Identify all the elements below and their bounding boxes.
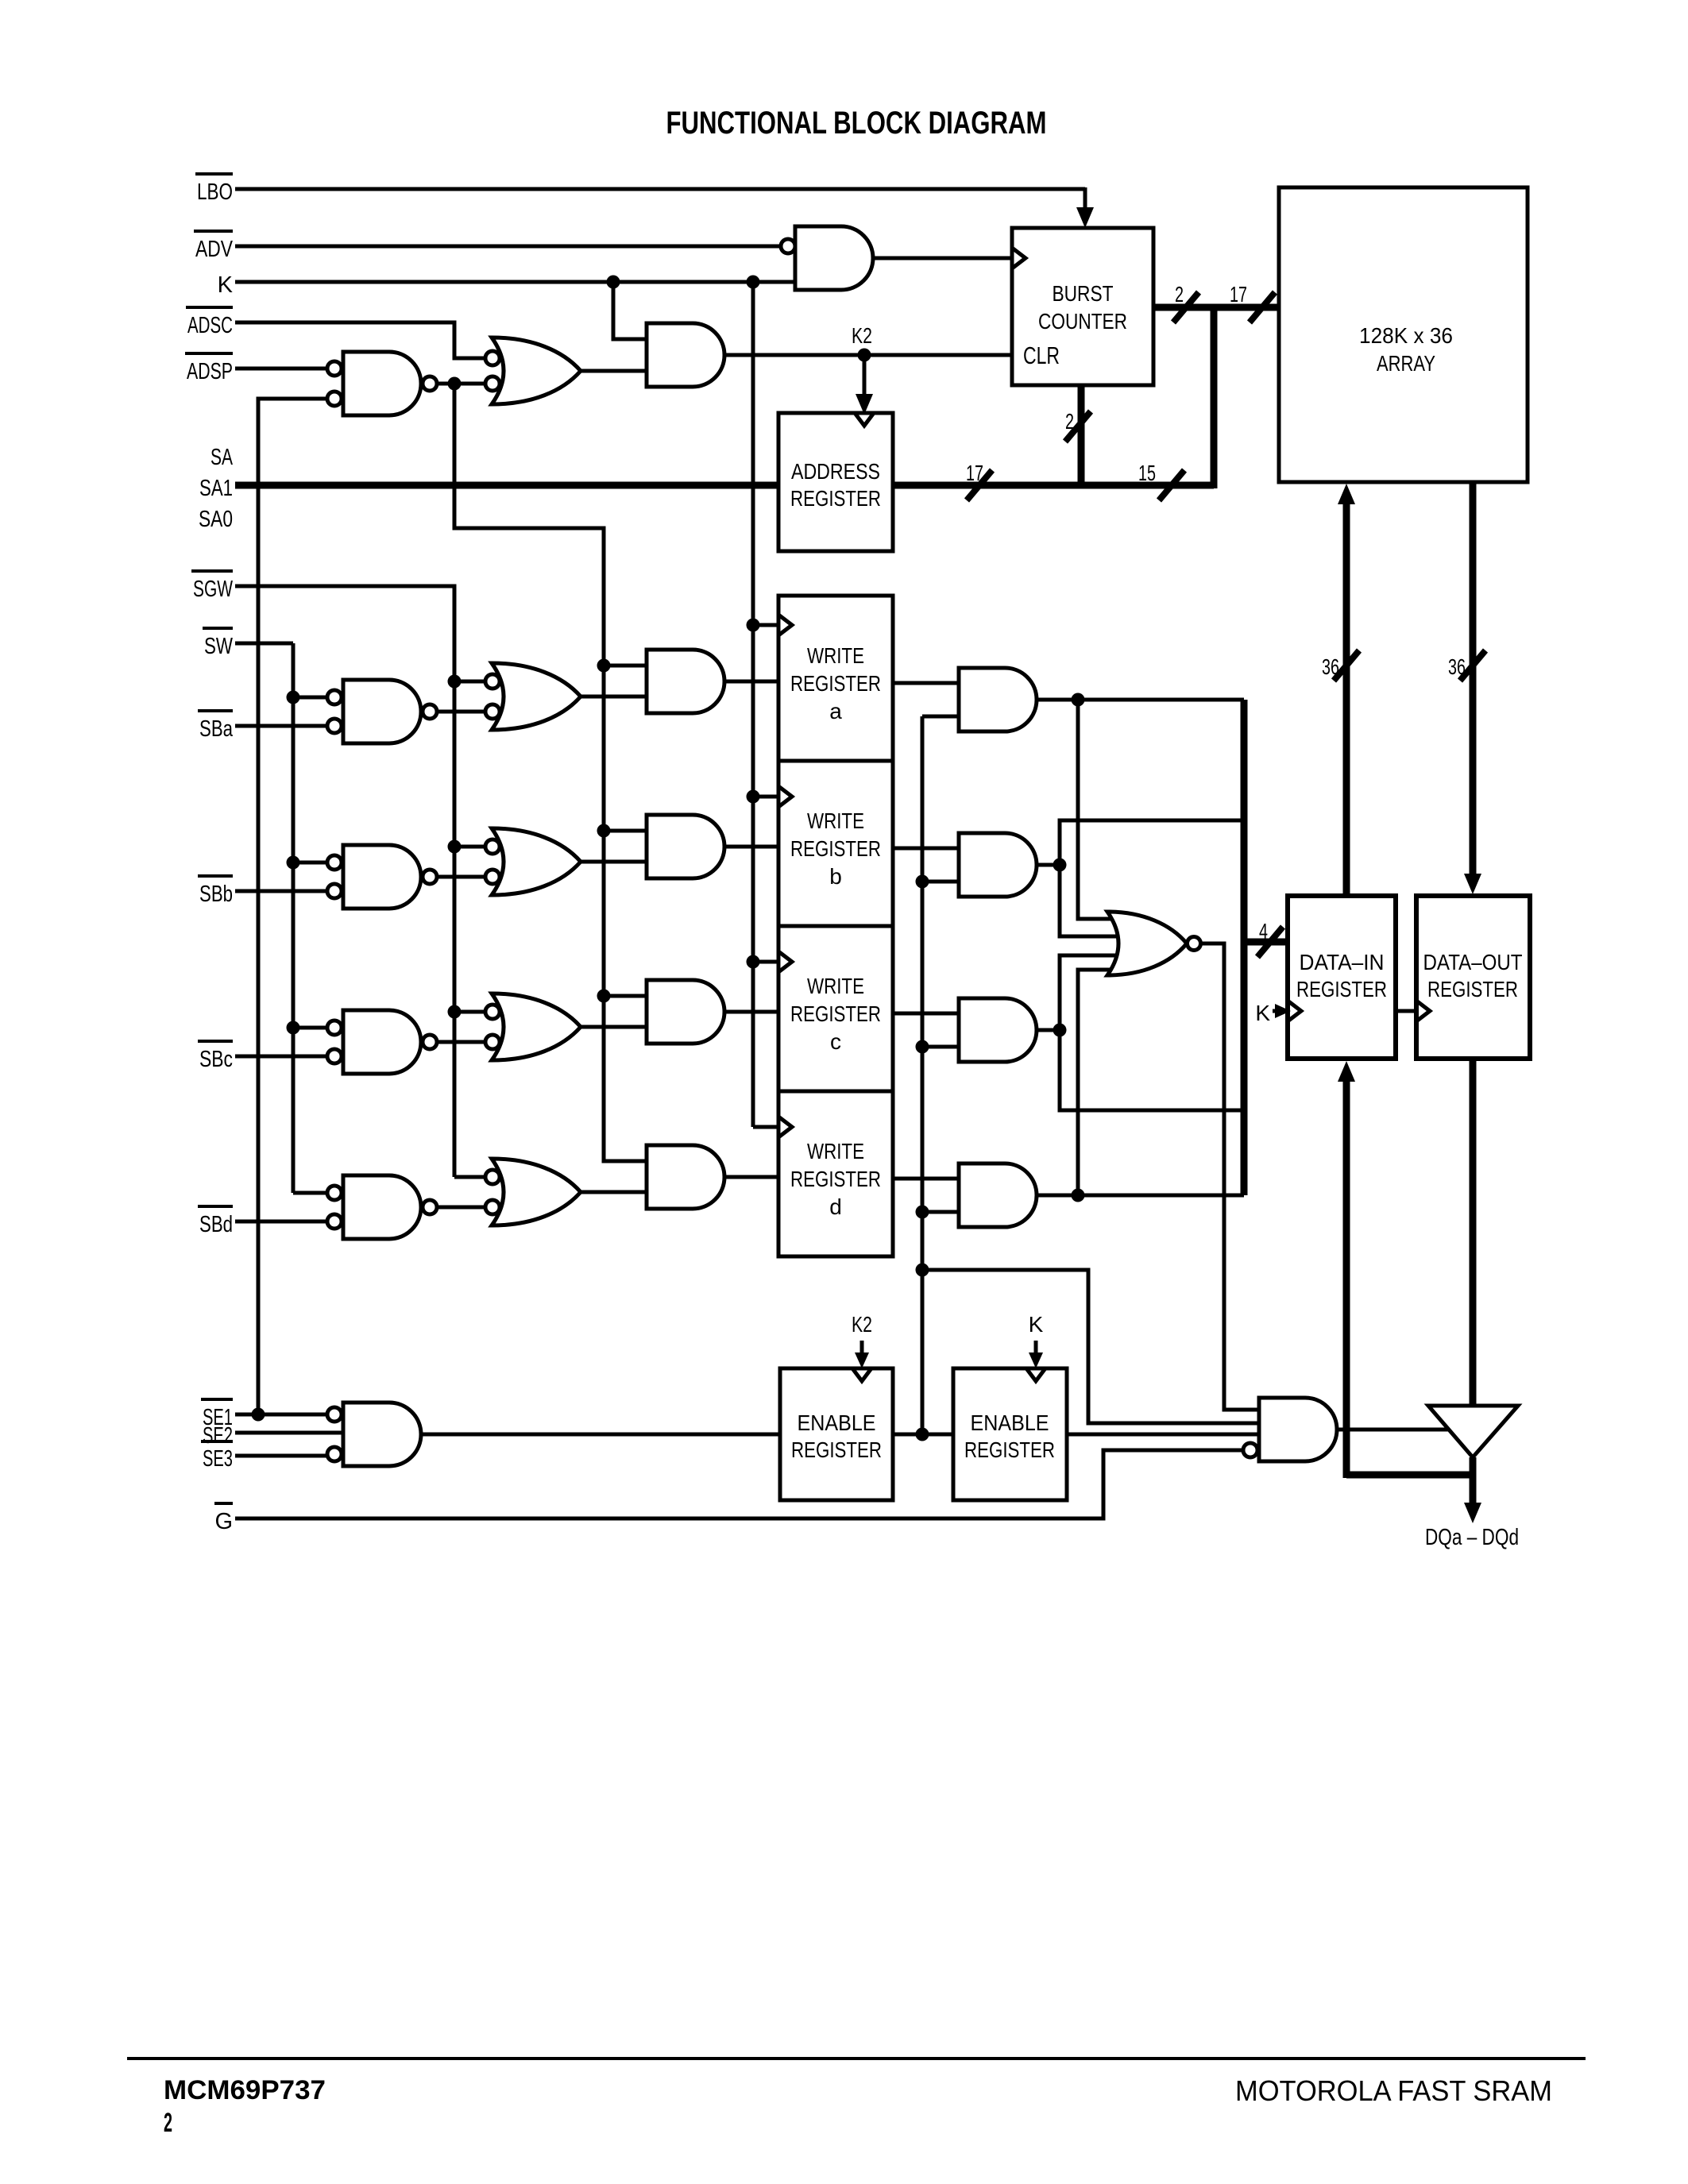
wire U8d to nor input 4 — [1078, 970, 1120, 1195]
svg-text:CLR: CLR — [1023, 341, 1060, 369]
label DQa-DQd — [1425, 1525, 1519, 1550]
svg-text:ENABLE: ENABLE — [798, 1410, 876, 1435]
svg-text:SA1: SA1 — [199, 476, 233, 501]
bus data-out to buffer — [1470, 1059, 1477, 1406]
and U7a write-enable gate — [647, 650, 724, 713]
bus 4 to data-in register — [1244, 939, 1288, 946]
svg-text:SBc: SBc — [199, 1047, 233, 1072]
svg-text:MOTOROLA FAST SRAM: MOTOROLA FAST SRAM — [1235, 2074, 1552, 2107]
wire enable tap row b — [922, 880, 959, 884]
or U6a write gate — [485, 663, 581, 730]
svg-text:REGISTER: REGISTER — [791, 1437, 882, 1462]
wire SBc input — [235, 1055, 327, 1059]
wire K2 arrow to enable register 1 — [852, 1341, 871, 1381]
node enable tap to output gate — [916, 1264, 929, 1277]
wire U7c output to write register — [724, 1010, 778, 1014]
wire U5d output — [436, 1206, 485, 1210]
wire U7b output to write register — [724, 845, 778, 849]
wire SBb input — [235, 889, 327, 893]
svg-text:SBb: SBb — [199, 882, 233, 907]
bus width 2 slash — [1173, 282, 1199, 322]
footer rule — [127, 2057, 1586, 2060]
wire K — [235, 280, 795, 284]
wire SBa input — [235, 724, 327, 728]
wire ADSP — [235, 367, 327, 371]
node SW tap row c — [287, 1021, 300, 1035]
svg-text:36: 36 — [1448, 654, 1466, 679]
and U7c write-enable gate — [647, 980, 724, 1044]
svg-text:ADSP: ADSP — [187, 359, 233, 384]
wire K to AND U3 input — [613, 282, 647, 339]
node U8d output junction — [1072, 1189, 1085, 1202]
svg-text:FUNCTIONAL BLOCK DIAGRAM: FUNCTIONAL BLOCK DIAGRAM — [666, 106, 1047, 141]
svg-text:G: G — [214, 1509, 233, 1534]
svg-text:d: d — [829, 1194, 842, 1219]
svg-text:ADDRESS: ADDRESS — [791, 459, 880, 484]
wire U1 output routed down to AND rows — [454, 384, 647, 1161]
wire SA line to U1 input — [258, 399, 327, 1414]
block BURST COUNTER — [1012, 228, 1153, 385]
wire SGW tap row b — [454, 845, 485, 849]
signal label ADSP — [185, 353, 233, 384]
wire U8d output to bus — [1037, 1194, 1244, 1198]
node routing tap row c — [597, 990, 611, 1003]
bus write-enable collect — [1241, 700, 1248, 1195]
wire U11 output to buffer — [1337, 1428, 1454, 1432]
wire U2 output — [581, 369, 647, 373]
and U8d output gate — [959, 1163, 1037, 1227]
wire SE1 to U10 — [235, 1413, 327, 1417]
wire SGW tap row d — [454, 1175, 485, 1179]
node routing tap row b — [597, 824, 611, 838]
block WRITE REGISTER d — [778, 1091, 893, 1256]
wire write register d output — [893, 1177, 959, 1181]
footer page number — [164, 2108, 172, 2138]
wire SW tap row c — [293, 1026, 327, 1030]
svg-text:K: K — [218, 272, 234, 298]
nand U5d byte-write gate — [327, 1175, 437, 1239]
svg-text:36: 36 — [1322, 654, 1339, 679]
svg-text:REGISTER: REGISTER — [790, 836, 881, 861]
svg-text:K: K — [1255, 1001, 1270, 1025]
wire U6b output — [581, 860, 647, 864]
wire SGW — [235, 586, 454, 1177]
and U11 output-enable gate — [1243, 1398, 1337, 1461]
wire SW tap row d — [293, 1191, 327, 1195]
wire SW horizontal — [235, 642, 293, 646]
svg-text:2: 2 — [1065, 409, 1074, 434]
bus vertical link — [1211, 307, 1218, 488]
and U8a output gate — [959, 668, 1037, 731]
wire U5b output — [436, 875, 485, 879]
nand U5a byte-write gate — [327, 680, 437, 743]
label K data-in clock — [1255, 1001, 1270, 1025]
wire enable tap row d — [922, 1210, 959, 1214]
bus data-in write path — [1338, 1061, 1473, 1478]
node K clock tap register c — [747, 955, 760, 969]
signal label SBc — [198, 1041, 233, 1072]
signal label SE3 — [203, 1446, 233, 1472]
bus width 17 slash — [966, 461, 992, 500]
wire K arrow to data-in — [1273, 1004, 1291, 1018]
svg-text:DQa – DQd: DQa – DQd — [1425, 1525, 1519, 1550]
wire U6a output — [581, 695, 647, 699]
block ENABLE REGISTER 1 — [780, 1368, 893, 1500]
svg-text:SE3: SE3 — [203, 1446, 233, 1472]
svg-text:COUNTER: COUNTER — [1038, 309, 1127, 334]
wire LBO horizontal — [235, 187, 1085, 191]
bus width 4 slash — [1257, 919, 1283, 957]
wire write register c output — [893, 1012, 959, 1016]
node K clock tap register b — [747, 790, 760, 804]
wire U8c to nor input 3 — [1060, 955, 1128, 1030]
svg-text:REGISTER: REGISTER — [964, 1437, 1055, 1462]
block 128K x 36 ARRAY — [1279, 187, 1528, 482]
svg-text:15: 15 — [1138, 461, 1156, 485]
svg-text:WRITE: WRITE — [807, 1139, 864, 1163]
or U6c write gate — [485, 994, 581, 1060]
wire U8a to nor input 1 — [1078, 700, 1120, 919]
wire routing tap row a — [604, 664, 647, 668]
svg-text:17: 17 — [966, 461, 983, 485]
footer part number MCM69P737 — [164, 2075, 326, 2105]
node K2 — [858, 349, 871, 362]
signal label SW — [203, 628, 233, 659]
wire U8c output — [1037, 1028, 1060, 1032]
svg-text:ENABLE: ENABLE — [971, 1410, 1049, 1435]
signal label SE2 — [201, 1423, 233, 1449]
svg-text:REGISTER: REGISTER — [790, 1001, 881, 1026]
wire routing tap row b — [604, 829, 647, 833]
wire G — [235, 1450, 1243, 1518]
wire U8c to bus — [1060, 1030, 1244, 1110]
buffer output triangle — [1428, 1406, 1518, 1457]
signal label SBa — [198, 711, 234, 742]
svg-text:WRITE: WRITE — [807, 808, 864, 833]
and U8c output gate — [959, 998, 1037, 1062]
svg-text:4: 4 — [1259, 919, 1268, 943]
node SW tap row b — [287, 856, 300, 870]
svg-text:ADV: ADV — [195, 237, 234, 262]
wire K clock tap register c — [753, 960, 778, 964]
signal label SBb — [198, 876, 233, 907]
node K clock tap register a — [747, 619, 760, 632]
wire write register b output — [893, 847, 959, 851]
svg-text:K2: K2 — [852, 323, 872, 348]
wire enable register 1 to 2 — [893, 1433, 953, 1437]
label K2 top — [852, 323, 872, 348]
block DATA-IN REGISTER — [1288, 896, 1396, 1059]
signal label SGW — [191, 571, 233, 602]
bus DQ output — [1464, 1457, 1481, 1523]
label K2 enable — [852, 1312, 872, 1337]
wire U3 output CLR line — [724, 353, 1012, 357]
node routing tap row a — [597, 659, 611, 673]
svg-text:WRITE: WRITE — [807, 643, 864, 668]
svg-text:ARRAY: ARRAY — [1377, 351, 1435, 376]
node U8a output junction — [1072, 693, 1085, 707]
wire data-in to data-out — [1396, 1009, 1416, 1013]
svg-text:SA0: SA0 — [199, 507, 233, 532]
signal label SA — [211, 445, 233, 470]
block WRITE REGISTER c — [778, 926, 893, 1091]
node SW tap row a — [287, 691, 300, 704]
node enable tap row b — [916, 875, 929, 889]
svg-text:SBa: SBa — [199, 716, 234, 742]
wire U6d output — [581, 1190, 647, 1194]
wire enable tap row c — [922, 1045, 959, 1049]
signal label ADV — [194, 231, 234, 262]
wire write register a output — [893, 681, 959, 685]
wire U8b to bus — [1060, 820, 1244, 865]
and U8b output gate — [959, 833, 1037, 897]
svg-text:SGW: SGW — [193, 577, 233, 602]
svg-text:WRITE: WRITE — [807, 974, 864, 998]
or U6b write gate — [485, 828, 581, 895]
wire enable vertical — [921, 716, 925, 1434]
wire SGW tap row c — [454, 1010, 485, 1014]
signal label SA1 — [199, 476, 233, 501]
wire routing tap row c — [604, 994, 647, 998]
and U7d write-enable gate — [647, 1145, 724, 1209]
title FUNCTIONAL BLOCK DIAGRAM — [666, 106, 1047, 141]
nand U4 ADV/K gate — [781, 226, 873, 290]
nand U1 ADSP/SA gate — [327, 352, 437, 415]
svg-text:REGISTER: REGISTER — [790, 671, 881, 696]
svg-text:SA: SA — [211, 445, 233, 470]
svg-text:17: 17 — [1230, 282, 1247, 307]
block DATA-OUT REGISTER — [1416, 896, 1530, 1059]
block WRITE REGISTER b — [778, 761, 893, 926]
node enable tap row d — [916, 1206, 929, 1219]
svg-text:SW: SW — [204, 634, 233, 659]
svg-text:REGISTER: REGISTER — [790, 1167, 881, 1191]
wire SE3 to U10 — [235, 1454, 327, 1458]
wire ADSC — [235, 322, 485, 358]
node SGW tap row c — [448, 1005, 462, 1019]
wire U9 output — [1200, 943, 1259, 1410]
svg-text:c: c — [830, 1029, 841, 1054]
bus burst counter output — [1153, 304, 1279, 311]
wire SW tap row b — [293, 861, 327, 865]
node K junction 2 — [747, 276, 760, 289]
svg-text:REGISTER: REGISTER — [1296, 977, 1387, 1001]
signal label SBd — [198, 1206, 233, 1237]
bus width 15 slash — [1138, 461, 1184, 500]
wire U8a output to bus — [1037, 698, 1244, 702]
node enable tap row c — [916, 1040, 929, 1054]
node U8c output junction — [1053, 1024, 1067, 1037]
svg-text:DATA–OUT: DATA–OUT — [1423, 950, 1523, 974]
and U3 clock gate — [647, 323, 724, 387]
wire U1 output — [436, 382, 485, 386]
or U2 ADSC gate — [485, 338, 581, 404]
wire SW tap row a — [293, 696, 327, 700]
wire U7d output to write register — [724, 1175, 778, 1179]
wire SE2 to U10 — [235, 1431, 343, 1435]
svg-text:ADSC: ADSC — [187, 313, 233, 338]
svg-text:b: b — [829, 864, 842, 889]
wire ADV — [235, 245, 781, 249]
wire U10 output — [421, 1433, 780, 1437]
signal label G — [214, 1503, 233, 1534]
svg-text:2: 2 — [164, 2108, 172, 2138]
nand U10 chip-enable gate — [327, 1403, 421, 1466]
wire K2 to address register — [856, 355, 873, 415]
node SGW tap row a — [448, 675, 462, 689]
or U6d write gate — [485, 1159, 581, 1225]
bus width 36 slash right — [1448, 650, 1485, 681]
bus 2 below burst counter — [1078, 385, 1085, 485]
footer MOTOROLA FAST SRAM — [1235, 2074, 1552, 2107]
node enable junction — [916, 1428, 929, 1441]
wire U6c output — [581, 1025, 647, 1029]
block ENABLE REGISTER 2 — [953, 1368, 1067, 1500]
wire K arrow to enable register 2 — [1026, 1341, 1045, 1381]
and U7b write-enable gate — [647, 815, 724, 878]
wire K clock tap register a — [753, 623, 778, 627]
wire U8b to nor input 2 — [1060, 865, 1128, 936]
node U8b output junction — [1053, 859, 1067, 872]
node K junction 1 — [607, 276, 620, 289]
svg-text:BURST: BURST — [1053, 281, 1114, 306]
node SE1 junction — [252, 1408, 265, 1422]
wire K clock tap register b — [753, 795, 778, 799]
wire U4 output to burst counter — [873, 257, 1012, 260]
wire LBO vertical into burst counter — [1076, 187, 1094, 228]
signal label SE1 — [201, 1399, 233, 1430]
node SGW tap row b — [448, 840, 462, 854]
bus width 2 slash lower — [1065, 409, 1091, 442]
wire SBd input — [235, 1220, 327, 1224]
signal label K — [218, 272, 234, 298]
node U1 output junction — [448, 377, 462, 391]
svg-text:LBO: LBO — [197, 179, 233, 205]
wire SGW tap row a — [454, 680, 485, 684]
wire SW vertical — [292, 643, 295, 1193]
block WRITE REGISTER a — [778, 596, 893, 761]
wire enable vertical top corner — [922, 715, 959, 719]
svg-text:SE2: SE2 — [203, 1423, 233, 1449]
svg-text:REGISTER: REGISTER — [790, 486, 881, 511]
svg-text:K: K — [1029, 1312, 1044, 1337]
wire enable register 2 output — [1067, 1433, 1259, 1437]
svg-text:MCM69P737: MCM69P737 — [164, 2075, 326, 2105]
block ADDRESS REGISTER — [778, 413, 893, 551]
bus SA address — [235, 482, 1214, 489]
signal label ADSC — [186, 307, 233, 338]
svg-text:128K x 36: 128K x 36 — [1359, 323, 1453, 348]
wire enable to output gate — [922, 1270, 1259, 1423]
svg-text:DATA–IN: DATA–IN — [1300, 950, 1385, 974]
nor U9 write-detect gate — [1107, 912, 1201, 975]
nand U5b byte-write gate — [327, 845, 437, 909]
svg-text:a: a — [829, 699, 842, 723]
bus width 17 slash to array — [1230, 282, 1275, 322]
nand U5c byte-write gate — [327, 1010, 437, 1074]
bus 36 data-in to array — [1338, 484, 1355, 896]
svg-text:2: 2 — [1175, 282, 1184, 307]
svg-text:REGISTER: REGISTER — [1427, 977, 1518, 1001]
signal label LBO — [195, 174, 233, 205]
label K enable — [1029, 1312, 1044, 1337]
wire U8b output — [1037, 863, 1060, 867]
wire K clock tap register d — [753, 1125, 778, 1129]
bus width 36 slash left — [1322, 650, 1359, 681]
wire U7a output to write register — [724, 680, 778, 684]
wire K clock vertical — [751, 282, 755, 1127]
bus 36 array to data-out — [1464, 482, 1481, 894]
wire U5a output — [436, 710, 485, 714]
svg-text:SBd: SBd — [199, 1212, 233, 1237]
svg-text:K2: K2 — [852, 1312, 872, 1337]
wire U5c output — [436, 1040, 485, 1044]
signal label SA0 — [199, 507, 233, 532]
